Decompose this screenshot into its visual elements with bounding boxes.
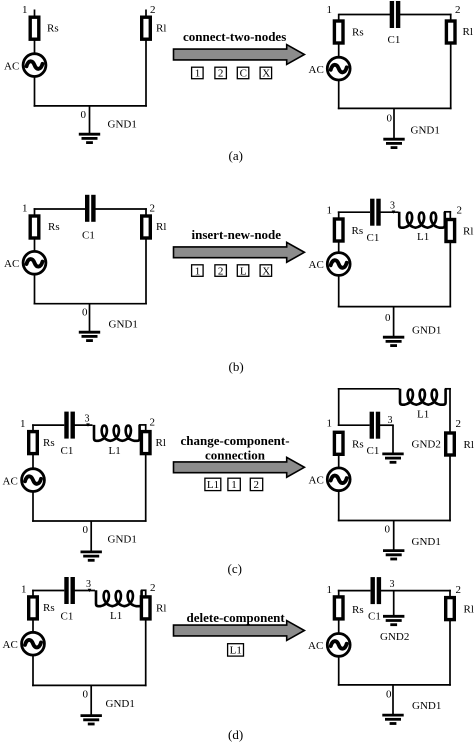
wire bottom	[32, 520, 147, 522]
svg-text:2: 2	[218, 68, 224, 80]
svg-text:L1: L1	[417, 231, 429, 243]
wire AC to bottom	[34, 274, 36, 304]
wire Rl bottom	[450, 43, 452, 109]
resistor Rl	[446, 433, 455, 455]
svg-text:Rs: Rs	[352, 604, 364, 616]
svg-text:GND1: GND1	[412, 700, 441, 712]
svg-text:3: 3	[390, 201, 395, 212]
resistor Rs	[30, 216, 39, 238]
wire node3 down	[393, 591, 395, 617]
svg-text:1: 1	[327, 4, 333, 16]
svg-text:Rl: Rl	[156, 437, 166, 449]
resistor Rs	[334, 432, 343, 454]
ground GND1	[79, 134, 100, 142]
svg-text:1: 1	[327, 584, 333, 596]
svg-text:2: 2	[150, 582, 156, 594]
AC source	[327, 57, 350, 80]
wire bottom	[338, 520, 451, 522]
wire top right	[400, 14, 452, 16]
wire Rl to bottom	[145, 454, 147, 522]
svg-text:3: 3	[388, 415, 393, 426]
token box 1	[228, 478, 240, 491]
ground GND1	[81, 552, 102, 560]
svg-text:C1: C1	[367, 232, 380, 244]
resistor Rs	[29, 432, 38, 454]
wire bottom	[32, 684, 147, 686]
svg-text:GND1: GND1	[109, 319, 138, 331]
svg-text:insert-new-node: insert-new-node	[192, 227, 282, 242]
wire node1 stub	[338, 590, 340, 598]
node 3 junction	[86, 423, 90, 426]
svg-text:L1: L1	[207, 479, 219, 491]
svg-text:1: 1	[21, 584, 27, 596]
wire bottom	[34, 303, 147, 305]
svg-text:AC: AC	[4, 258, 19, 270]
ground GND1	[383, 551, 404, 559]
wire node1 stub	[338, 211, 340, 220]
resistor Rs	[334, 219, 343, 241]
svg-text:AC: AC	[308, 640, 323, 652]
wire Rs to AC	[34, 39, 36, 54]
arrow delete-component	[174, 621, 305, 641]
svg-text:C1: C1	[82, 230, 95, 242]
wire top left	[338, 211, 370, 213]
svg-text:Rs: Rs	[352, 225, 364, 237]
svg-text:2: 2	[455, 4, 461, 16]
svg-text:1: 1	[195, 265, 201, 277]
node 3 junction	[88, 589, 92, 592]
wire coil to node2	[444, 211, 451, 213]
svg-text:3: 3	[390, 579, 395, 590]
wire bottom	[338, 107, 452, 109]
inductor L1	[399, 212, 445, 228]
wire AC to bottom	[338, 656, 340, 685]
wire node2 stub	[145, 590, 147, 598]
wire cap to node3	[380, 211, 399, 213]
arrow change-component-connection	[174, 457, 305, 477]
svg-text:L1: L1	[109, 445, 121, 457]
wire Rs to AC	[338, 619, 340, 634]
svg-text:change-component-: change-component-	[181, 433, 290, 448]
ground GND1	[383, 337, 404, 345]
svg-text:3: 3	[86, 579, 91, 590]
resistor Rs	[334, 21, 343, 43]
arrow connect-two-nodes	[174, 45, 305, 65]
ground GND2	[382, 454, 403, 462]
AC source	[23, 251, 46, 274]
wire Rs to AC	[32, 454, 34, 469]
wire cap to node2	[380, 590, 451, 592]
svg-text:0: 0	[81, 109, 87, 121]
svg-text:1: 1	[22, 203, 28, 215]
svg-text:1: 1	[327, 418, 333, 430]
wire Rl to bottom	[449, 455, 451, 521]
capacitor C1	[370, 199, 381, 226]
svg-text:GND2: GND2	[412, 439, 441, 451]
svg-text:delete-component: delete-component	[187, 610, 286, 625]
wire AC to bottom	[32, 655, 34, 686]
svg-text:Rl: Rl	[463, 226, 473, 238]
AC source	[22, 469, 45, 492]
token box 2	[215, 67, 227, 80]
capacitor C1	[370, 412, 381, 439]
svg-text:AC: AC	[3, 639, 18, 651]
svg-text:0: 0	[83, 689, 89, 701]
wire coil to node2	[139, 424, 147, 426]
wire bottom	[338, 684, 451, 686]
svg-text:0: 0	[82, 307, 88, 319]
svg-text:X: X	[262, 265, 270, 277]
ground GND1	[382, 715, 403, 723]
wire ground stub	[89, 106, 91, 135]
wire top left	[32, 424, 64, 426]
resistor Rs	[334, 597, 343, 619]
arrow insert-new-node	[174, 242, 305, 262]
token box X	[260, 265, 272, 278]
svg-text:(b): (b)	[229, 359, 244, 374]
wire Rl to bottom	[449, 242, 451, 308]
AC source	[327, 468, 350, 491]
capacitor C1	[390, 1, 401, 28]
svg-text:L1: L1	[417, 409, 429, 421]
wire cap to node3	[74, 590, 95, 592]
wire Rs to AC	[338, 241, 340, 254]
svg-text:0: 0	[387, 113, 393, 125]
wire ground stub	[90, 685, 92, 716]
wire top left	[339, 14, 391, 16]
wire node1 stub	[34, 208, 36, 216]
resistor Rl	[446, 21, 455, 43]
token box 1	[192, 265, 204, 278]
wire top left	[34, 208, 85, 210]
svg-text:0: 0	[385, 524, 391, 536]
wire AC to bottom	[338, 275, 340, 307]
svg-text:Rs: Rs	[43, 602, 55, 614]
wire AC to bottom	[338, 80, 340, 109]
svg-text:GND1: GND1	[108, 119, 137, 131]
svg-text:AC: AC	[4, 60, 19, 72]
wire Rl to bottom	[145, 39, 147, 107]
wire Rl to bottom	[450, 14, 452, 21]
wire node3 down	[392, 425, 394, 454]
svg-text:GND1: GND1	[411, 125, 440, 137]
svg-text:2: 2	[456, 584, 462, 596]
svg-text:3: 3	[85, 414, 90, 425]
svg-text:Rl: Rl	[464, 604, 474, 616]
wire node1 stub	[338, 14, 340, 21]
wire bottom	[338, 306, 451, 308]
capacitor C1	[64, 577, 75, 604]
node 3 junction	[392, 211, 396, 214]
wire ground stub	[89, 304, 91, 333]
svg-text:(d): (d)	[228, 727, 243, 742]
svg-text:(a): (a)	[229, 148, 243, 163]
svg-text:L: L	[240, 265, 247, 277]
svg-text:2: 2	[150, 203, 156, 215]
AC source	[327, 253, 350, 276]
svg-text:Rl: Rl	[463, 26, 473, 38]
wire node2 stub	[145, 10, 147, 18]
resistor Rl	[141, 597, 150, 619]
svg-text:2: 2	[218, 265, 224, 277]
resistor Rl	[446, 220, 455, 242]
wire AC to bottom	[34, 77, 36, 107]
wire Rs to AC	[32, 619, 34, 632]
svg-text:X: X	[262, 68, 270, 80]
svg-text:C1: C1	[367, 445, 380, 457]
resistor Rs	[29, 597, 38, 619]
svg-text:GND1: GND1	[106, 698, 135, 710]
wire bottom	[34, 105, 147, 107]
wire cap to node3	[74, 424, 92, 426]
AC source	[22, 632, 45, 655]
wire top left	[32, 590, 64, 592]
capacitor C1	[64, 412, 75, 439]
wire ground stub	[393, 521, 395, 551]
token box C	[237, 67, 249, 80]
svg-text:GND1: GND1	[412, 325, 441, 337]
inductor L1	[94, 425, 140, 441]
svg-text:L1: L1	[110, 610, 122, 622]
wire Rs to AC	[338, 43, 340, 58]
svg-text:Rl: Rl	[156, 221, 166, 233]
wire node1 stub	[32, 590, 34, 597]
wire Rl to bottom	[145, 238, 147, 305]
ground GND1	[81, 716, 102, 724]
wire ground stub	[393, 307, 395, 338]
wire ground stub	[392, 685, 394, 716]
svg-text:Rl: Rl	[464, 439, 474, 451]
svg-text:2: 2	[254, 479, 260, 491]
wire top horizontal	[338, 388, 400, 390]
wire node1 to cap	[338, 424, 370, 426]
svg-text:C1: C1	[61, 611, 74, 623]
svg-text:(c): (c)	[228, 561, 242, 576]
inductor L1	[96, 590, 142, 606]
svg-text:1: 1	[231, 479, 237, 491]
svg-text:Rs: Rs	[352, 439, 364, 451]
svg-text:GND1: GND1	[412, 536, 441, 548]
AC source	[327, 634, 350, 657]
ground GND2	[383, 616, 404, 624]
svg-text:connect-two-nodes: connect-two-nodes	[183, 29, 286, 44]
svg-text:Rs: Rs	[47, 23, 59, 35]
capacitor C1	[371, 577, 382, 604]
token box 2	[250, 478, 262, 491]
wire right vertical to Rl	[449, 388, 451, 433]
wire AC to bottom	[338, 491, 340, 522]
resistor Rs	[30, 17, 39, 39]
svg-text:2: 2	[457, 205, 463, 217]
ground GND1	[79, 332, 100, 340]
svg-text:1: 1	[22, 4, 28, 16]
resistor Rl	[141, 432, 150, 454]
wire node2 stub	[449, 211, 451, 220]
token box L	[237, 265, 249, 278]
wire node2 stub	[145, 424, 147, 432]
svg-text:1: 1	[195, 68, 201, 80]
resistor Rl	[446, 598, 455, 620]
inductor L1	[400, 389, 446, 405]
svg-text:C1: C1	[61, 445, 74, 457]
svg-text:2: 2	[150, 4, 156, 16]
svg-text:AC: AC	[309, 259, 324, 271]
AC source	[23, 54, 46, 77]
svg-text:2: 2	[456, 418, 462, 430]
svg-text:1: 1	[20, 418, 26, 430]
svg-text:2: 2	[150, 417, 156, 429]
wire top left	[338, 590, 371, 592]
svg-text:GND1: GND1	[108, 534, 137, 546]
svg-text:C1: C1	[388, 34, 401, 46]
svg-text:L1: L1	[230, 645, 242, 657]
svg-text:Rl: Rl	[156, 23, 166, 35]
svg-text:Rs: Rs	[48, 221, 60, 233]
token box 1	[192, 67, 204, 80]
wire cap to node3	[380, 424, 394, 426]
svg-text:0: 0	[385, 312, 391, 324]
svg-text:GND2: GND2	[380, 631, 409, 643]
resistor Rl	[142, 216, 151, 238]
svg-text:AC: AC	[309, 64, 324, 76]
token box X	[260, 67, 272, 80]
svg-text:0: 0	[386, 689, 392, 701]
svg-text:Rs: Rs	[352, 27, 364, 39]
svg-text:0: 0	[83, 524, 89, 536]
wire node2 stub	[145, 208, 147, 216]
svg-text:C1: C1	[368, 611, 381, 623]
wire Rl to bottom	[145, 619, 147, 686]
wire top right	[95, 208, 147, 210]
wire node1 stub	[32, 424, 34, 431]
svg-text:AC: AC	[3, 475, 18, 487]
svg-text:Rl: Rl	[156, 603, 166, 615]
token box L1	[205, 478, 221, 491]
svg-text:AC: AC	[309, 475, 324, 487]
capacitor C1	[85, 195, 96, 222]
svg-text:Rs: Rs	[43, 437, 55, 449]
wire Rs to AC	[34, 238, 36, 251]
wire ground stub	[393, 108, 395, 139]
wire ground stub	[90, 521, 92, 552]
svg-text:1: 1	[327, 205, 333, 217]
wire coil to node2	[141, 589, 147, 591]
token box 2	[215, 265, 227, 278]
wire Rl to bottom	[449, 620, 451, 686]
resistor Rl	[142, 17, 151, 39]
svg-text:connection: connection	[205, 448, 266, 463]
wire node2 stub	[449, 590, 451, 598]
wire node1 stub	[34, 10, 36, 18]
token box L1	[228, 644, 244, 657]
wire top left vertical	[338, 388, 340, 426]
wire AC to bottom	[32, 492, 34, 522]
ground GND1	[383, 139, 404, 147]
wire coil to corner	[445, 388, 451, 390]
svg-text:C: C	[240, 68, 247, 80]
wire Rs to AC	[338, 454, 340, 468]
